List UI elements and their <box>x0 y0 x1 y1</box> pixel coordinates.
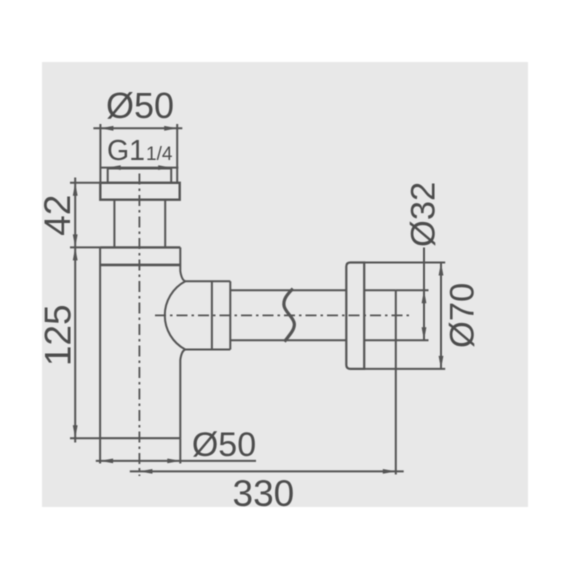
bottom Ø50 dim line <box>96 460 256 462</box>
collar top <box>185 280 230 282</box>
svg-text:Ø32: Ø32 <box>404 182 442 247</box>
ext line body bottom <box>70 437 100 439</box>
neck left <box>113 200 115 248</box>
neck right <box>164 200 166 248</box>
pipe end vertical + 330 ext <box>395 290 397 474</box>
svg-text:G1: G1 <box>107 135 145 167</box>
svg-text:330: 330 <box>233 473 295 514</box>
thread stub <box>108 169 172 183</box>
Ø32 ext bottom <box>396 339 429 341</box>
collar right face <box>229 281 231 349</box>
ext line flange top <box>70 182 100 184</box>
pipe top left segment <box>230 289 346 291</box>
arrow 125 bottom <box>73 425 78 438</box>
Ø70 dim line <box>440 263 442 369</box>
left dim line 42/125 <box>74 178 76 443</box>
break squiggle <box>284 289 295 342</box>
arrow bottom Ø50 left <box>100 459 113 464</box>
svg-text:Ø50: Ø50 <box>192 426 256 464</box>
arrow 125 top <box>73 247 78 260</box>
body bottom edge <box>100 437 180 439</box>
arrow top Ø50 right <box>164 126 177 131</box>
Ø32 ext top <box>396 289 429 291</box>
G1 dim line <box>100 167 179 169</box>
arrow 42 bottom <box>73 234 78 247</box>
bottom Ø50 ext left <box>99 438 101 463</box>
flange <box>100 183 179 200</box>
pipe bottom right segment <box>364 339 396 341</box>
svg-text:125: 125 <box>37 304 78 366</box>
arrow Ø32 top <box>422 290 427 303</box>
Ø32 dim line <box>423 248 425 342</box>
body top edge <box>100 246 180 248</box>
svg-text:1/4: 1/4 <box>146 144 173 165</box>
ext line body top <box>70 246 100 248</box>
arrow 330 left <box>139 469 152 474</box>
collar inner vertical <box>211 281 213 349</box>
arrow Ø70 top <box>439 263 444 276</box>
body left edge <box>99 247 101 438</box>
Ø70 ext top <box>364 262 445 264</box>
horizontal centerline <box>155 314 410 316</box>
arrow 330 right <box>383 469 396 474</box>
arrow 42 top <box>73 183 78 196</box>
arrow G1 left <box>108 165 121 170</box>
Ø70 ext bottom <box>364 368 445 370</box>
svg-text:42: 42 <box>37 195 78 236</box>
gray canvas <box>42 62 528 507</box>
top Ø50 ext line right <box>176 124 178 183</box>
arrow Ø32 bottom <box>422 327 427 340</box>
arrow top Ø50 left <box>100 126 113 131</box>
top Ø50 ext line left <box>99 124 101 183</box>
wall plate <box>346 263 364 369</box>
330 dim line <box>130 470 404 472</box>
arrow G1 right <box>158 165 171 170</box>
svg-text:Ø70: Ø70 <box>443 283 481 348</box>
body seam <box>100 264 180 267</box>
collar bottom <box>185 349 230 351</box>
pipe top right segment <box>364 289 396 291</box>
arrow bottom Ø50 right <box>167 459 180 464</box>
top Ø50 dim line <box>93 127 182 129</box>
pipe bottom left segment <box>230 339 346 341</box>
body right edge with bulge <box>165 247 186 438</box>
arrow Ø70 bottom <box>439 356 444 369</box>
vertical centerline <box>138 174 140 477</box>
svg-text:Ø50: Ø50 <box>106 85 174 126</box>
bottom Ø50 ext right <box>179 438 181 463</box>
